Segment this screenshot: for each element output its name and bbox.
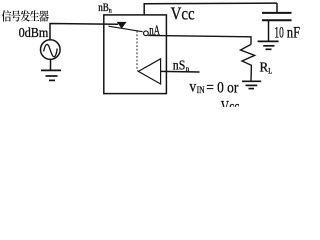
dashed control line bbox=[137, 31, 138, 72]
ground (source) bbox=[41, 70, 61, 80]
svg-text:nB: nB bbox=[98, 2, 109, 14]
svg-text:IN: IN bbox=[197, 86, 205, 96]
switch arm bbox=[109, 26, 143, 32]
AC source VS circle bbox=[41, 40, 61, 60]
node nB label bbox=[98, 2, 112, 15]
AC source sine wave bbox=[44, 44, 58, 56]
inverter gate bbox=[138, 59, 160, 84]
svg-text:nF: nF bbox=[287, 25, 300, 42]
svg-text:Vcc: Vcc bbox=[221, 97, 240, 107]
svg-text:v: v bbox=[189, 79, 196, 96]
svg-text:0dBm: 0dBm bbox=[19, 26, 49, 41]
switch arrowhead bbox=[117, 22, 127, 29]
wire source to box input nB bbox=[50, 24, 118, 40]
capacitor C 10nF plates bbox=[262, 13, 292, 20]
wire nA node to load RL bbox=[148, 35, 251, 44]
svg-text:Vcc: Vcc bbox=[171, 3, 195, 23]
capacitor C 10nF bottom lead bbox=[268, 20, 270, 41]
switch contact node nA circle bbox=[144, 31, 149, 36]
vIN annotation bbox=[189, 79, 238, 97]
IC box bbox=[104, 15, 167, 94]
svg-text:n: n bbox=[186, 64, 190, 73]
svg-text:L: L bbox=[268, 65, 272, 75]
svg-text:nS: nS bbox=[173, 57, 186, 72]
ground (capacitor) bbox=[258, 41, 279, 49]
ground (load RL) bbox=[242, 81, 261, 88]
resistor RL zigzag bbox=[241, 44, 255, 80]
wire source to ground bbox=[50, 59, 52, 70]
svg-text:nA: nA bbox=[149, 24, 160, 39]
svg-text:R: R bbox=[260, 59, 269, 74]
label: signal generator caption 信号发生器 bbox=[2, 10, 49, 21]
svg-text:= 0 or: = 0 or bbox=[206, 79, 239, 96]
wire gate output to nS bbox=[161, 70, 200, 73]
node nS label bbox=[173, 57, 190, 73]
wire Vcc rail bbox=[144, 3, 277, 15]
resistor RL label bbox=[260, 59, 273, 75]
svg-text:10: 10 bbox=[274, 25, 283, 42]
svg-text:n: n bbox=[109, 6, 112, 14]
capacitor C 10nF top lead bbox=[276, 3, 278, 13]
